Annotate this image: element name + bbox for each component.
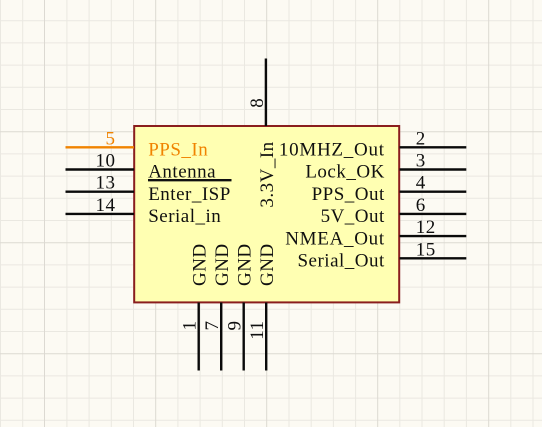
svg-text:10: 10	[96, 151, 116, 172]
svg-text:15: 15	[416, 239, 436, 260]
pin 7 wire (bottom)	[220, 303, 222, 371]
pin 15 wire (right)	[400, 257, 467, 259]
pin 11 wire (bottom)	[265, 303, 267, 371]
component body U1	[134, 126, 399, 302]
svg-text:9: 9	[225, 321, 246, 331]
svg-text:NMEA_Out: NMEA_Out	[285, 228, 385, 249]
pin 14 wire (left)	[66, 213, 135, 215]
pin 4 wire (right)	[400, 190, 467, 192]
svg-text:1: 1	[180, 321, 201, 331]
pin 5 wire (left, orange)	[66, 146, 135, 148]
svg-text:5: 5	[106, 128, 116, 149]
pin 9 wire (bottom)	[242, 303, 244, 371]
svg-text:2: 2	[416, 128, 426, 149]
svg-text:6: 6	[416, 195, 426, 216]
svg-text:PPS_Out: PPS_Out	[312, 184, 385, 205]
svg-text:11: 11	[247, 321, 268, 340]
pin 10 wire (left)	[66, 168, 135, 170]
svg-text:Enter_ISP: Enter_ISP	[148, 184, 231, 205]
svg-text:GND: GND	[257, 243, 278, 286]
svg-text:Lock_OK: Lock_OK	[305, 162, 384, 183]
svg-text:14: 14	[96, 195, 116, 216]
pin 8 wire (top)	[265, 59, 267, 127]
svg-text:PPS_In: PPS_In	[148, 140, 208, 161]
svg-text:7: 7	[202, 321, 223, 331]
svg-text:GND: GND	[235, 243, 256, 286]
pin 13 wire (left)	[66, 190, 135, 192]
svg-text:10MHZ_Out: 10MHZ_Out	[279, 140, 385, 161]
svg-text:13: 13	[96, 173, 116, 194]
svg-text:GND: GND	[190, 243, 211, 286]
svg-text:12: 12	[416, 217, 436, 238]
svg-text:8: 8	[247, 98, 268, 108]
svg-text:3: 3	[416, 151, 426, 172]
pin 3 wire (right)	[400, 168, 467, 170]
svg-text:GND: GND	[212, 243, 233, 286]
pin 6 wire (right)	[400, 213, 467, 215]
svg-text:5V_Out: 5V_Out	[321, 206, 385, 227]
Antenna underline	[148, 179, 232, 181]
pin 2 wire (right)	[400, 146, 467, 148]
svg-text:3.3V_In: 3.3V_In	[257, 141, 278, 207]
pin 1 wire (bottom)	[197, 303, 199, 371]
svg-text:Serial_Out: Serial_Out	[297, 251, 385, 272]
pin 12 wire (right)	[400, 235, 467, 237]
svg-text:4: 4	[416, 173, 426, 194]
svg-text:Serial_in: Serial_in	[148, 206, 221, 227]
